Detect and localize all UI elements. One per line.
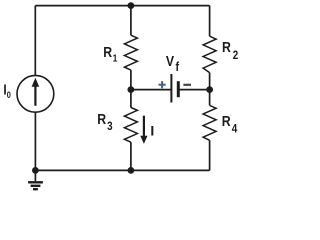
svg-text:R: R — [222, 39, 231, 55]
wire left branch lower — [34, 112, 36, 170]
wire right branch top — [209, 6, 211, 37]
current source I0 circle — [17, 75, 54, 112]
label R3 — [97, 111, 112, 133]
resistor R4 — [203, 105, 216, 140]
svg-text:4: 4 — [232, 123, 238, 136]
node top junction — [127, 2, 134, 9]
wire right branch bottom — [209, 140, 211, 170]
svg-text:f: f — [176, 59, 180, 74]
label Vf — [166, 53, 179, 74]
wire right branch middle — [209, 73, 211, 106]
wire top horizontal — [35, 5, 209, 7]
node bottom-middle junction — [127, 167, 134, 174]
battery plus sign — [159, 81, 166, 88]
label I0 — [3, 81, 11, 100]
node middle-left junction — [127, 86, 134, 93]
wire bottom horizontal — [35, 169, 209, 171]
svg-text:I: I — [150, 122, 154, 138]
svg-text:1: 1 — [113, 53, 118, 65]
label R4 — [222, 113, 238, 136]
battery Vf short plate — [177, 81, 180, 97]
wire battery right — [179, 89, 209, 91]
current source arrow — [34, 86, 36, 106]
svg-text:2: 2 — [233, 49, 238, 62]
wire middle branch top — [130, 6, 132, 36]
svg-text:R: R — [97, 111, 106, 127]
battery Vf long plate — [170, 74, 172, 103]
resistor R3 — [124, 108, 137, 143]
current arrow I at R3 — [143, 116, 145, 138]
svg-text:3: 3 — [107, 120, 112, 133]
label R2 — [222, 39, 238, 62]
wire middle branch bottom — [130, 142, 132, 170]
label R1 — [103, 44, 118, 65]
ground — [28, 170, 43, 189]
svg-text:0: 0 — [7, 90, 11, 100]
svg-text:R: R — [103, 44, 112, 60]
node middle-right junction — [206, 86, 213, 93]
node bottom-left junction — [32, 167, 39, 174]
wire middle branch center — [130, 70, 132, 107]
svg-text:V: V — [166, 53, 175, 69]
wire left branch upper — [34, 6, 36, 76]
resistor R1 — [124, 35, 137, 70]
resistor R2 — [203, 36, 216, 72]
wire battery left — [131, 89, 171, 91]
battery minus sign — [183, 84, 191, 86]
svg-text:R: R — [222, 113, 231, 129]
